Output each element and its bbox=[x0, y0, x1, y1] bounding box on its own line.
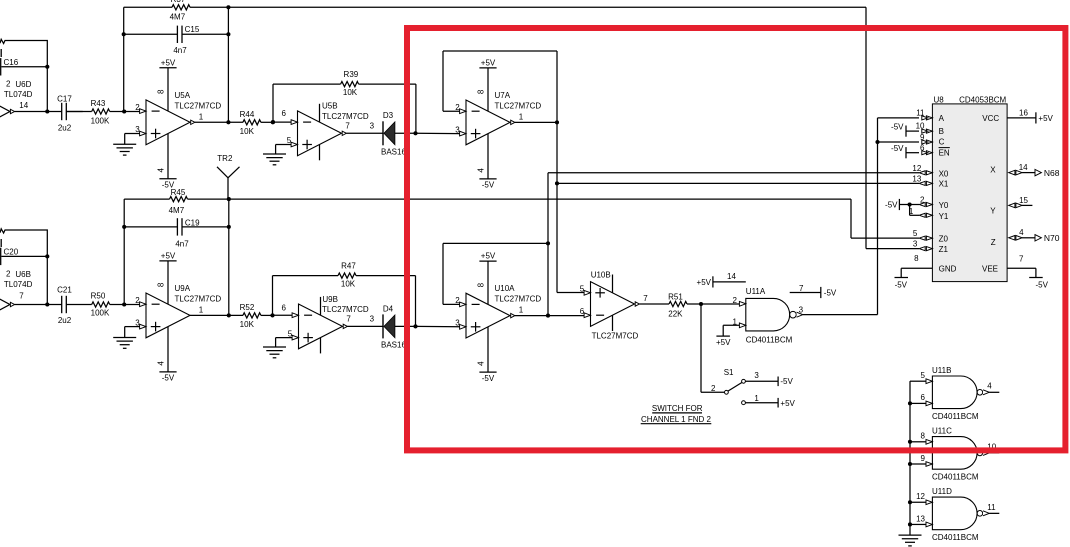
svg-text:R39: R39 bbox=[344, 70, 359, 79]
svg-text:-5V: -5V bbox=[891, 144, 904, 153]
svg-text:U6D: U6D bbox=[15, 80, 31, 89]
svg-text:22K: 22K bbox=[668, 310, 683, 319]
svg-text:2: 2 bbox=[6, 270, 11, 279]
svg-text:5: 5 bbox=[921, 371, 926, 380]
svg-text:U5B: U5B bbox=[322, 102, 338, 111]
svg-text:+5V: +5V bbox=[716, 338, 731, 347]
svg-text:R47: R47 bbox=[341, 261, 356, 270]
svg-text:4n7: 4n7 bbox=[175, 240, 189, 249]
svg-text:7: 7 bbox=[346, 315, 351, 324]
svg-text:6: 6 bbox=[282, 303, 287, 312]
svg-text:-5V: -5V bbox=[482, 374, 495, 383]
svg-text:-5V: -5V bbox=[780, 377, 793, 386]
svg-text:Y0: Y0 bbox=[939, 201, 949, 210]
svg-text:5: 5 bbox=[288, 329, 293, 338]
svg-text:R45: R45 bbox=[171, 188, 186, 197]
svg-text:2: 2 bbox=[135, 296, 140, 305]
svg-text:3: 3 bbox=[135, 318, 140, 327]
svg-text:1: 1 bbox=[909, 207, 914, 216]
svg-text:N70: N70 bbox=[1044, 233, 1060, 243]
svg-text:7: 7 bbox=[643, 294, 648, 303]
svg-text:C: C bbox=[939, 138, 945, 147]
svg-text:SWITCH FOR: SWITCH FOR bbox=[652, 404, 703, 413]
svg-text:4n7: 4n7 bbox=[173, 46, 187, 55]
svg-text:3: 3 bbox=[135, 125, 140, 134]
svg-text:C21: C21 bbox=[57, 286, 72, 295]
svg-text:1: 1 bbox=[754, 394, 759, 403]
svg-text:3: 3 bbox=[455, 125, 460, 134]
svg-text:2: 2 bbox=[711, 384, 716, 393]
svg-text:2: 2 bbox=[135, 103, 140, 112]
svg-text:CD4011BCM: CD4011BCM bbox=[746, 335, 793, 344]
svg-text:10K: 10K bbox=[341, 280, 356, 289]
svg-text:3: 3 bbox=[370, 315, 375, 324]
svg-text:10K: 10K bbox=[240, 320, 255, 329]
svg-text:1: 1 bbox=[199, 305, 204, 314]
svg-text:-5V: -5V bbox=[162, 374, 175, 383]
svg-text:7: 7 bbox=[345, 122, 350, 131]
svg-text:C20: C20 bbox=[4, 248, 19, 257]
svg-text:10: 10 bbox=[916, 122, 925, 131]
svg-text:TLC27M7CD: TLC27M7CD bbox=[495, 295, 542, 304]
svg-text:100K: 100K bbox=[91, 116, 110, 125]
svg-text:U7A: U7A bbox=[495, 91, 511, 100]
svg-text:U11D: U11D bbox=[932, 487, 952, 496]
svg-text:U11A: U11A bbox=[746, 287, 766, 296]
svg-text:2: 2 bbox=[455, 103, 460, 112]
svg-text:U6B: U6B bbox=[15, 270, 31, 279]
svg-text:CD4011BCM: CD4011BCM bbox=[932, 533, 979, 542]
svg-text:2u2: 2u2 bbox=[58, 124, 72, 133]
svg-text:8: 8 bbox=[921, 432, 926, 441]
svg-text:7: 7 bbox=[19, 291, 24, 300]
svg-text:U11C: U11C bbox=[932, 427, 952, 436]
svg-text:U10B: U10B bbox=[591, 271, 611, 280]
svg-text:B: B bbox=[939, 127, 944, 136]
svg-text:VCC: VCC bbox=[982, 114, 999, 123]
svg-text:C17: C17 bbox=[57, 94, 72, 103]
svg-text:BAS16: BAS16 bbox=[381, 340, 406, 349]
svg-text:A: A bbox=[939, 114, 945, 123]
svg-text:-5V: -5V bbox=[482, 181, 495, 190]
svg-text:1: 1 bbox=[519, 112, 524, 121]
svg-text:R50: R50 bbox=[91, 292, 106, 301]
svg-text:8: 8 bbox=[157, 89, 166, 94]
svg-text:9: 9 bbox=[921, 454, 926, 463]
svg-text:VEE: VEE bbox=[982, 265, 998, 274]
svg-text:C19: C19 bbox=[185, 218, 200, 227]
svg-text:2u2: 2u2 bbox=[58, 316, 72, 325]
svg-text:100K: 100K bbox=[91, 309, 110, 318]
svg-text:Z0: Z0 bbox=[939, 234, 949, 243]
svg-text:8: 8 bbox=[157, 282, 166, 287]
svg-text:5: 5 bbox=[913, 229, 918, 238]
svg-text:3: 3 bbox=[913, 240, 918, 249]
svg-text:+5V: +5V bbox=[481, 252, 496, 261]
svg-text:N68: N68 bbox=[1044, 168, 1060, 178]
svg-text:3: 3 bbox=[799, 305, 804, 314]
svg-text:TLC27M7CD: TLC27M7CD bbox=[495, 101, 542, 110]
svg-text:-5V: -5V bbox=[1035, 280, 1048, 289]
svg-text:3: 3 bbox=[754, 371, 759, 380]
svg-text:3: 3 bbox=[370, 122, 375, 131]
svg-text:5: 5 bbox=[580, 285, 585, 294]
svg-text:7: 7 bbox=[1019, 255, 1024, 264]
svg-text:CD4011BCM: CD4011BCM bbox=[932, 412, 979, 421]
svg-text:TL074D: TL074D bbox=[4, 280, 33, 289]
svg-text:TLC27M7CD: TLC27M7CD bbox=[592, 331, 639, 340]
svg-text:U9B: U9B bbox=[322, 295, 338, 304]
svg-text:4: 4 bbox=[477, 361, 486, 366]
svg-text:TLC27M7CD: TLC27M7CD bbox=[175, 101, 222, 110]
svg-text:S1: S1 bbox=[724, 368, 734, 377]
svg-text:D3: D3 bbox=[383, 111, 394, 120]
svg-text:1: 1 bbox=[519, 306, 524, 315]
svg-text:U9A: U9A bbox=[175, 284, 191, 293]
svg-text:7: 7 bbox=[799, 284, 804, 293]
svg-text:14: 14 bbox=[1019, 163, 1028, 172]
svg-text:4: 4 bbox=[987, 382, 992, 391]
svg-text:U10A: U10A bbox=[495, 284, 516, 293]
svg-text:TR2: TR2 bbox=[217, 154, 233, 163]
svg-text:+5V: +5V bbox=[1038, 114, 1053, 123]
svg-text:+5V: +5V bbox=[481, 58, 496, 67]
svg-text:4: 4 bbox=[1019, 228, 1024, 237]
svg-text:X: X bbox=[990, 165, 996, 174]
svg-text:8: 8 bbox=[477, 282, 486, 287]
svg-text:Z: Z bbox=[991, 238, 996, 247]
svg-text:11: 11 bbox=[916, 109, 925, 118]
svg-text:+5V: +5V bbox=[161, 251, 176, 260]
svg-text:-5V: -5V bbox=[824, 289, 837, 298]
svg-text:12: 12 bbox=[916, 492, 925, 501]
svg-text:5: 5 bbox=[287, 136, 292, 145]
svg-text:-5V: -5V bbox=[885, 200, 898, 209]
svg-text:U11B: U11B bbox=[932, 366, 951, 375]
svg-text:-5V: -5V bbox=[891, 122, 904, 131]
svg-text:TLC27M7CD: TLC27M7CD bbox=[322, 112, 369, 121]
svg-text:2: 2 bbox=[455, 296, 460, 305]
svg-text:14: 14 bbox=[19, 101, 28, 110]
svg-text:R43: R43 bbox=[91, 99, 106, 108]
svg-text:R44: R44 bbox=[240, 110, 255, 119]
svg-text:8: 8 bbox=[477, 89, 486, 94]
svg-text:C15: C15 bbox=[185, 25, 200, 34]
svg-text:TLC27M7CD: TLC27M7CD bbox=[322, 305, 369, 314]
svg-text:Z1: Z1 bbox=[939, 245, 949, 254]
svg-text:X1: X1 bbox=[939, 180, 949, 189]
svg-text:+5V: +5V bbox=[161, 58, 176, 67]
svg-text:10K: 10K bbox=[240, 127, 255, 136]
svg-text:R52: R52 bbox=[240, 303, 255, 312]
svg-text:CHANNEL 1 FND 2: CHANNEL 1 FND 2 bbox=[641, 415, 711, 424]
svg-text:6: 6 bbox=[580, 307, 585, 316]
svg-text:4M7: 4M7 bbox=[169, 206, 185, 215]
svg-text:6: 6 bbox=[921, 393, 926, 402]
svg-text:D4: D4 bbox=[383, 304, 394, 313]
svg-text:12: 12 bbox=[912, 164, 921, 173]
svg-text:2: 2 bbox=[6, 80, 11, 89]
svg-text:15: 15 bbox=[1019, 196, 1028, 205]
svg-text:TL074D: TL074D bbox=[4, 90, 33, 99]
svg-text:GND: GND bbox=[939, 265, 957, 274]
svg-text:BAS16: BAS16 bbox=[381, 147, 406, 156]
svg-text:4: 4 bbox=[157, 168, 166, 173]
svg-text:U5A: U5A bbox=[175, 91, 191, 100]
svg-text:X0: X0 bbox=[939, 169, 949, 178]
svg-text:4: 4 bbox=[477, 168, 486, 173]
svg-text:1: 1 bbox=[199, 112, 204, 121]
svg-text:+5V: +5V bbox=[697, 278, 712, 287]
svg-text:10K: 10K bbox=[343, 88, 358, 97]
svg-text:EN: EN bbox=[939, 148, 950, 157]
svg-text:16: 16 bbox=[1019, 109, 1028, 118]
svg-text:R37: R37 bbox=[171, 0, 186, 4]
svg-text:U8: U8 bbox=[934, 96, 945, 105]
svg-text:C16: C16 bbox=[4, 58, 19, 67]
svg-text:3: 3 bbox=[455, 319, 460, 328]
svg-text:4: 4 bbox=[157, 361, 166, 366]
svg-text:13: 13 bbox=[912, 175, 921, 184]
svg-text:Y: Y bbox=[990, 207, 996, 216]
svg-text:Y1: Y1 bbox=[939, 212, 949, 221]
svg-text:CD4053BCM: CD4053BCM bbox=[959, 96, 1006, 105]
svg-text:6: 6 bbox=[282, 109, 287, 118]
svg-text:8: 8 bbox=[914, 254, 919, 263]
svg-text:2: 2 bbox=[920, 196, 925, 205]
svg-text:R51: R51 bbox=[668, 292, 683, 301]
svg-text:11: 11 bbox=[987, 503, 996, 512]
svg-text:13: 13 bbox=[916, 514, 925, 523]
svg-text:4M7: 4M7 bbox=[170, 13, 186, 22]
svg-text:TLC27M7CD: TLC27M7CD bbox=[175, 294, 222, 303]
svg-text:9: 9 bbox=[920, 133, 925, 142]
svg-text:2: 2 bbox=[733, 296, 738, 305]
svg-text:14: 14 bbox=[727, 272, 736, 281]
svg-text:6: 6 bbox=[920, 144, 925, 153]
svg-text:CD4011BCM: CD4011BCM bbox=[932, 472, 979, 481]
svg-text:-5V: -5V bbox=[895, 280, 908, 289]
svg-text:+5V: +5V bbox=[780, 399, 795, 408]
